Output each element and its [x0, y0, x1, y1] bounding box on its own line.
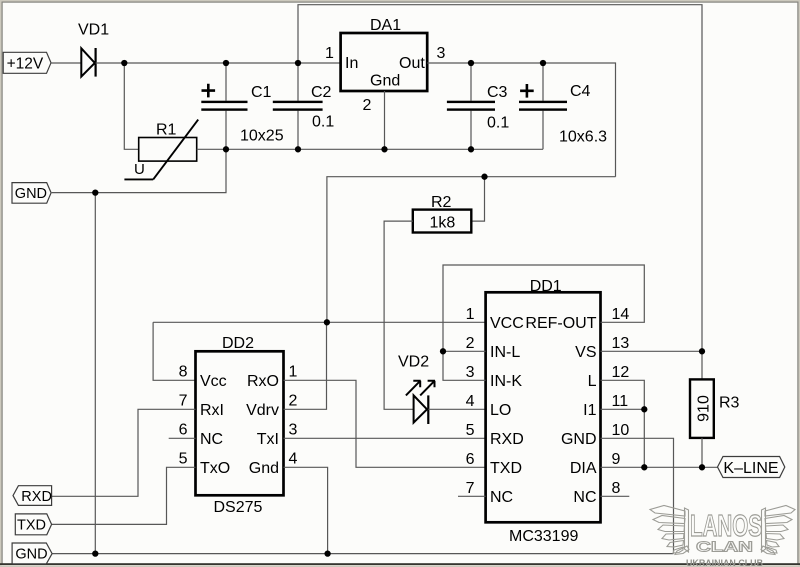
svg-text:REF-OUT: REF-OUT — [525, 315, 596, 332]
svg-text:12: 12 — [612, 364, 630, 381]
svg-text:Gnd: Gnd — [370, 73, 400, 90]
svg-text:VS: VS — [575, 344, 596, 361]
connector GND left — [12, 183, 51, 204]
capacitor C1 — [201, 84, 283, 145]
wire DD2 TxO route to TXD — [52, 467, 196, 524]
svg-text:1: 1 — [325, 45, 334, 62]
svg-text:TxI: TxI — [257, 431, 279, 448]
wire R3 top — [701, 351, 703, 379]
wire C2 verticals — [297, 63, 299, 149]
svg-text:2: 2 — [289, 393, 298, 410]
wire DD1 NC stub left — [458, 495, 486, 497]
svg-text:7: 7 — [466, 480, 475, 497]
svg-text:10: 10 — [612, 422, 630, 439]
node C3 top — [468, 60, 474, 66]
wire VD2 cathode to DD1 LO — [428, 408, 485, 410]
node R3 bottom — [699, 464, 705, 470]
wire I1 pin 11 — [601, 408, 645, 410]
svg-text:NC: NC — [490, 489, 513, 506]
svg-text:I1: I1 — [583, 402, 596, 419]
svg-text:GND: GND — [15, 547, 47, 563]
wire DIA pin 9 to K-LINE — [601, 466, 718, 468]
wire VD1 to DA1 (top +12V rail) — [96, 62, 341, 64]
svg-text:8: 8 — [612, 480, 621, 497]
svg-text:1k8: 1k8 — [430, 215, 456, 232]
capacitor C2 — [273, 84, 335, 130]
wire GND tag to cap rail — [52, 149, 226, 192]
logo watermark LANOS CLAN wings — [650, 506, 795, 555]
wire DD1 NC stub right — [601, 495, 630, 497]
svg-text:10x6.3: 10x6.3 — [559, 128, 607, 145]
svg-text:13: 13 — [612, 335, 630, 352]
wire VCC rail — [153, 321, 486, 323]
wire DD2 Gnd to ground bus — [284, 467, 328, 553]
wire C4 verticals — [542, 63, 544, 149]
capacitor C3 — [447, 84, 509, 131]
svg-text:1: 1 — [466, 306, 475, 323]
wire node to R1 left — [124, 63, 138, 149]
svg-text:2: 2 — [363, 97, 372, 114]
svg-text:0.1: 0.1 — [487, 114, 509, 131]
connector +12V — [3, 52, 51, 73]
svg-text:DD1: DD1 — [530, 278, 562, 295]
connector TXD — [15, 514, 51, 535]
svg-text:LO: LO — [490, 402, 511, 419]
svg-text:IN-K: IN-K — [490, 373, 522, 390]
svg-text:L: L — [588, 373, 597, 390]
svg-text:NC: NC — [573, 489, 596, 506]
wire DA1 Gnd pin 2 — [384, 91, 386, 149]
LED VD2 — [398, 354, 435, 425]
wire DD2 NC stub — [169, 437, 196, 439]
varistor R1 — [124, 120, 198, 180]
capacitor C4 — [519, 83, 607, 145]
svg-text:9: 9 — [612, 451, 621, 468]
wire C3 verticals — [470, 63, 472, 149]
svg-text:3: 3 — [466, 364, 475, 381]
connector RXD — [13, 486, 52, 506]
svg-text:DS275: DS275 — [214, 499, 263, 516]
svg-text:R2: R2 — [431, 194, 452, 211]
svg-text:3: 3 — [437, 45, 446, 62]
svg-text:DD2: DD2 — [222, 335, 254, 352]
wire DA1 out rail — [427, 63, 615, 177]
regulator DA1 — [325, 17, 446, 114]
wire GND pin 10 to ground bus — [601, 438, 674, 553]
wire 5V feed down-left to VCC rail — [327, 177, 616, 323]
svg-text:U: U — [134, 161, 145, 178]
svg-text:Out: Out — [399, 55, 425, 72]
svg-text:In: In — [345, 55, 358, 72]
svg-text:11: 11 — [612, 393, 629, 410]
wire DD2 RxI route to RXD — [52, 409, 196, 496]
node R2 tap — [481, 174, 487, 180]
svg-text:TXD: TXD — [17, 518, 46, 534]
svg-text:6: 6 — [466, 451, 475, 468]
wire bottom ground bus — [52, 553, 673, 555]
wire bottom capacitor rail — [226, 148, 543, 150]
node C1 top — [223, 60, 229, 66]
wire VCC drop to DD2 Vcc — [153, 322, 195, 380]
wire DD2 RxO to DD1 TXD — [284, 380, 486, 467]
svg-text:GND: GND — [561, 431, 597, 448]
svg-text:RXD: RXD — [21, 489, 52, 505]
svg-text:DA1: DA1 — [370, 17, 401, 34]
node C4 top — [540, 60, 546, 66]
wire DD2 TxI to DD1 RXD — [284, 437, 486, 439]
svg-text:C2: C2 — [311, 84, 332, 101]
connector K-LINE — [718, 457, 785, 478]
svg-text:R1: R1 — [156, 121, 177, 138]
connector GND bottom — [12, 543, 52, 564]
wire L pin 12 link down to DIA — [601, 380, 645, 467]
svg-text:TXD: TXD — [490, 460, 522, 477]
node VS / R3 top — [699, 348, 705, 354]
svg-text:0.1: 0.1 — [312, 113, 334, 130]
wire +12V to VD1 — [51, 62, 81, 64]
node DIA left — [641, 464, 647, 470]
svg-text:5: 5 — [466, 422, 475, 439]
wire R2 left to VD2 anode — [384, 221, 414, 409]
svg-text:Gnd: Gnd — [249, 460, 279, 477]
svg-text:14: 14 — [612, 306, 630, 323]
svg-text:MC33199: MC33199 — [509, 528, 578, 545]
svg-text:RXD: RXD — [490, 431, 524, 448]
svg-text:C4: C4 — [570, 83, 591, 100]
wire C1 verticals — [225, 63, 227, 149]
svg-text:6: 6 — [179, 422, 188, 439]
node at diode output — [121, 60, 127, 66]
diode VD1 — [78, 22, 109, 77]
svg-text:C3: C3 — [487, 84, 508, 101]
node GND left — [92, 189, 98, 195]
svg-text:CLAN: CLAN — [696, 540, 753, 556]
svg-text:LANOS: LANOS — [690, 508, 762, 543]
IC DD1 — [466, 278, 630, 545]
svg-text:1: 1 — [289, 364, 298, 381]
resistor R2 — [413, 194, 472, 232]
svg-text:5: 5 — [179, 451, 188, 468]
svg-text:K–LINE: K–LINE — [723, 460, 778, 477]
svg-text:R3: R3 — [719, 394, 740, 411]
wire IN-L pin 2 — [443, 350, 486, 352]
node I1 — [641, 406, 647, 412]
wire REF-OUT loop to IN-L / IN-K — [443, 265, 644, 380]
svg-text:910: 910 — [696, 395, 713, 422]
node C2 bottom — [295, 146, 301, 152]
svg-text:Vdrv: Vdrv — [246, 402, 279, 419]
svg-text:UKRAINIAN CLUB: UKRAINIAN CLUB — [686, 558, 763, 567]
svg-text:VD2: VD2 — [398, 354, 429, 371]
wire left ground bus — [94, 193, 96, 554]
svg-text:7: 7 — [179, 393, 188, 410]
svg-text:GND: GND — [15, 186, 47, 202]
node VCC rail — [324, 319, 330, 325]
svg-text:10x25: 10x25 — [240, 127, 284, 144]
wire 12V top link to VS — [298, 5, 702, 352]
wire VS pin 13 — [601, 350, 703, 352]
node C1 bottom — [223, 146, 229, 152]
svg-text:VCC: VCC — [490, 315, 524, 332]
svg-text:TxO: TxO — [200, 460, 230, 477]
wire R3 bottom — [701, 438, 703, 467]
wire R2 right branch — [471, 177, 484, 221]
svg-text:C1: C1 — [251, 84, 272, 101]
svg-text:3: 3 — [289, 422, 298, 439]
svg-text:4: 4 — [466, 393, 475, 410]
svg-text:Vcc: Vcc — [200, 373, 227, 390]
svg-text:RxI: RxI — [200, 402, 224, 419]
IC DD2 — [179, 335, 298, 516]
node C2 top — [295, 60, 301, 66]
svg-text:DIA: DIA — [570, 460, 597, 477]
svg-text:RxO: RxO — [247, 373, 279, 390]
svg-text:VD1: VD1 — [78, 22, 109, 39]
svg-text:4: 4 — [289, 451, 298, 468]
node ground bus left — [92, 550, 98, 556]
svg-text:NC: NC — [200, 431, 223, 448]
wire R1 right to bottom rail — [197, 148, 226, 150]
node IN-L — [440, 348, 446, 354]
svg-text:IN-L: IN-L — [490, 344, 520, 361]
node C3 bottom — [468, 146, 474, 152]
resistor R3 — [690, 379, 740, 438]
node ground bus DD2 — [324, 550, 330, 556]
wire DD2 Vdrv to VCC rail — [284, 322, 327, 409]
svg-text:+12V: +12V — [7, 56, 44, 73]
svg-text:8: 8 — [179, 364, 188, 381]
node DA1 gnd rail — [381, 146, 387, 152]
svg-text:2: 2 — [466, 335, 475, 352]
